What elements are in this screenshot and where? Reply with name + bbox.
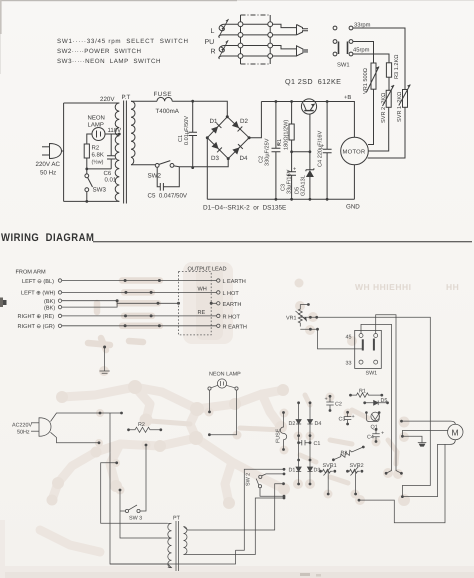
svg-text:SW 3: SW 3 [129, 516, 142, 522]
transformer PT primary winding [115, 103, 119, 201]
svg-text:220V AC: 220V AC [36, 161, 61, 168]
capacitor C3 plates [287, 172, 296, 176]
diode D4 symbol [307, 420, 312, 425]
wire row BK lower joining bracket [62, 301, 117, 307]
left vertical supply wire [63, 103, 65, 201]
capacitor C6 top lead [110, 134, 112, 156]
svg-text:C2: C2 [335, 402, 342, 408]
capacitor C1 (bottom) between columns [299, 442, 310, 444]
ground rail [207, 198, 354, 200]
svg-text:D4: D4 [315, 421, 322, 427]
PU connector block left rail [240, 15, 242, 64]
wire row2 L gnd [241, 34, 271, 36]
SW3 wire bottom [86, 192, 88, 202]
plug prong top [42, 146, 50, 148]
svg-text:R EARTH: R EARTH [223, 324, 247, 330]
svg-text:0.01µF/50V: 0.01µF/50V [183, 116, 190, 145]
svg-text:(BK): (BK) [44, 298, 55, 305]
zener D5 cathode bar [306, 168, 314, 171]
svg-text:OUTPUT LEAD: OUTPUT LEAD [188, 267, 227, 273]
fuse (bottom) [282, 411, 285, 414]
svg-text:M: M [452, 428, 459, 438]
trimmer SVR2 body [386, 90, 391, 107]
diode D5 (bottom) [363, 401, 366, 404]
potentiometer VR1 body [371, 63, 376, 89]
junction dot C2 top [275, 100, 278, 103]
bottom page edge tint [0, 566, 474, 578]
svg-text:C3: C3 [339, 417, 346, 423]
L cartridge arrow [219, 19, 229, 37]
SVR2 arrow [383, 85, 395, 106]
resistor R1 body [289, 124, 294, 140]
svg-text:50 Hz: 50 Hz [40, 170, 56, 177]
wire plug bottom lead [51, 432, 100, 443]
wire SW1 TR up and right, down right side [376, 315, 402, 474]
svg-text:D2: D2 [289, 421, 296, 427]
junction dot D5 bottom [309, 198, 312, 201]
wire motor bottom branches [402, 440, 455, 497]
svg-text:D5: D5 [381, 398, 388, 404]
svg-text:AC220V: AC220V [12, 423, 32, 429]
splice dots row R hot [124, 314, 127, 317]
SW1 (bottom) box [355, 330, 382, 368]
wire row4 R gnd [241, 55, 271, 57]
diode column D2/D1 [297, 401, 300, 404]
SW1 right pole bar [347, 42, 349, 55]
capacitor C2 leads [275, 102, 277, 200]
resistor R3 diagonal (bottom) [332, 458, 335, 461]
C5 right lead up to SW2 output wire [163, 167, 179, 187]
svg-text:LAMP: LAMP [88, 122, 104, 129]
output lead dashed box [179, 272, 212, 335]
diode D3 on bottom-left edge [212, 142, 222, 152]
transformer PT core [176, 521, 179, 571]
svg-text:SVR 2 2KΩ: SVR 2 2KΩ [381, 93, 387, 123]
svg-text:L EARTH: L EARTH [223, 279, 246, 285]
trimmer SVR2 (bottom) [346, 470, 349, 473]
R output gnd wire [273, 55, 297, 57]
diode column D4/D3 [309, 401, 312, 404]
capacitor C1 plates [189, 132, 198, 135]
resistor R1 (bottom) [349, 394, 352, 397]
svg-text:220V: 220V [100, 96, 115, 103]
VR1 terminal wires and dots [300, 305, 317, 330]
wire corner column to D1 row dot [236, 469, 285, 550]
svg-text:SW2·····POWER SWITCH: SW2·····POWER SWITCH [57, 48, 141, 55]
svg-text:R1: R1 [277, 139, 283, 146]
svg-text:GND: GND [346, 204, 360, 211]
junction dot Q1 emitter node [309, 150, 312, 153]
neon lamp circle [92, 128, 105, 141]
page top edge artifact [0, 0, 237, 1]
splice dots earth row [116, 299, 119, 302]
R gnd lead hook [219, 56, 238, 59]
svg-text:33rpm: 33rpm [354, 22, 371, 29]
svg-text:110V: 110V [108, 127, 122, 134]
pcb trace web darker accents [150, 395, 397, 483]
svg-text:L HOT: L HOT [223, 291, 240, 297]
trimmer SVR1 (bottom) [319, 470, 322, 473]
ground symbol (bottom) [418, 442, 427, 444]
svg-text:+: + [293, 167, 296, 173]
svg-text:R1: R1 [359, 389, 366, 395]
svg-text:D1~D4--SR1K-2 or DS135E: D1~D4--SR1K-2 or DS135E [203, 205, 286, 212]
R cartridge arrow [219, 40, 228, 58]
wire SVR2 chain to motor [368, 108, 388, 152]
terminal circles from arm [58, 279, 61, 282]
svg-text:RE: RE [198, 310, 206, 316]
junction dot R1 top [290, 100, 293, 103]
svg-text:T400mA: T400mA [156, 108, 180, 115]
svg-text:C5 0.047/50V: C5 0.047/50V [148, 193, 188, 200]
svg-text:SW2: SW2 [148, 173, 162, 180]
wire neon lamp left [87, 134, 92, 144]
svg-text:VR1 500Ω: VR1 500Ω [363, 68, 369, 94]
resistor R3 body [386, 63, 391, 77]
pcb round pads [47, 279, 411, 510]
PU connector block right rail [269, 15, 271, 64]
switch SW1 open contact circle [333, 26, 337, 30]
SW1 left pole bar [338, 42, 340, 55]
svg-text:SW3: SW3 [93, 187, 107, 194]
svg-text:+: + [325, 397, 328, 403]
capacitor C1 bottom lead [192, 136, 194, 168]
svg-text:33µF/16V: 33µF/16V [285, 169, 292, 194]
plug prong bottom [42, 154, 50, 156]
wire VR1 bottom to motor [368, 89, 374, 144]
wire motor left to ground [402, 431, 447, 437]
wire row R earth (GR) [62, 325, 217, 327]
wire plug top lead [51, 413, 122, 422]
svg-text:SW1: SW1 [366, 371, 378, 377]
svg-text:PT: PT [173, 516, 181, 522]
R channel lead wire with curl [219, 46, 238, 53]
SW2 contacts [259, 475, 262, 478]
diode D2 symbol [296, 420, 301, 425]
svg-text:SVR1: SVR1 [323, 463, 337, 469]
wire SW1 TL up and right, down right side [361, 324, 392, 473]
svg-text:6.8K: 6.8K [92, 152, 104, 159]
splice dots row2 [124, 291, 127, 294]
wire row3 R hot [241, 45, 271, 47]
junction dot C4 bottom [326, 198, 329, 201]
wire 45rpm bottom to R3 [353, 54, 389, 63]
svg-text:NEON LAMP: NEON LAMP [209, 372, 241, 378]
wire row L hot (WH) [62, 291, 217, 293]
wire plug to left rail [62, 150, 64, 152]
svg-text:C4: C4 [367, 435, 374, 441]
transformer PT secondary winding [131, 101, 135, 165]
bridge corner junction dots [206, 115, 251, 160]
splice dots row R earth [124, 324, 127, 327]
svg-text:EARTH: EARTH [223, 302, 242, 308]
AC mains plug symbol [50, 144, 62, 159]
svg-text:FROM ARM: FROM ARM [16, 270, 46, 276]
SW2 left contact [155, 164, 159, 168]
junction dot C1 top [191, 100, 194, 103]
PU block top dash-dot shield line [241, 14, 271, 16]
junction dots on diode columns [297, 434, 300, 437]
svg-text:D1: D1 [210, 118, 218, 125]
junction dot C2 bottom [275, 198, 278, 201]
svg-text:FUSE: FUSE [154, 91, 173, 98]
capacitor C6 bottom lead [110, 159, 112, 169]
diode D4 on bottom-right edge [232, 144, 242, 154]
pcb trace web center light [40, 387, 284, 552]
R RCA plug symbol [297, 46, 304, 56]
transformer PT (bottom) left coil [168, 523, 172, 567]
diode D2 on top-right edge [232, 121, 242, 131]
svg-text:VR1: VR1 [286, 316, 297, 322]
capacitor C4 leads [326, 102, 328, 200]
left edge streak [0, 520, 5, 578]
wire 45rpm top to VR1 [353, 42, 374, 64]
wire neon right terminal down-left [209, 390, 236, 435]
svg-text:C6: C6 [104, 170, 112, 177]
wire SW2 bottom to dot [260, 488, 284, 496]
L channel lead wire with curl [219, 24, 238, 31]
resistor R2 body [84, 144, 89, 158]
svg-text:FUSE: FUSE [276, 428, 282, 443]
svg-text:45: 45 [346, 335, 352, 341]
svg-text:SW 2: SW 2 [246, 473, 252, 486]
svg-text:R2: R2 [138, 422, 145, 428]
junction dot R1 bottom node [290, 150, 293, 153]
SW3 lever [88, 178, 93, 188]
capacitor C4 plates [323, 149, 332, 153]
motor M circle (bottom) [448, 424, 463, 439]
svg-text:LEFT ⊕ (WH): LEFT ⊕ (WH) [21, 290, 56, 297]
svg-text:0.01: 0.01 [105, 177, 117, 184]
C5 left lead from SW2 [157, 167, 160, 187]
zener D5 leads [309, 152, 311, 200]
PU pin circles right rail [268, 22, 273, 27]
wire SW3 bottom to coil tap [120, 490, 168, 538]
svg-text:RIGHT ⊕ (RE): RIGHT ⊕ (RE) [18, 313, 55, 320]
junction dot C4 top [326, 100, 329, 103]
PU pin circles left rail [238, 22, 273, 59]
svg-text:D3: D3 [314, 468, 321, 474]
svg-text:RIGHT ⊖ (GR): RIGHT ⊖ (GR) [18, 323, 55, 330]
Q1 base bar [304, 110, 313, 112]
svg-text:R3 1.2KΩ: R3 1.2KΩ [394, 55, 400, 79]
transformer PT core [124, 101, 127, 204]
wire row L earth (BL) [62, 280, 217, 282]
svg-text:SW3·····NEON LAMP SWITCH: SW3·····NEON LAMP SWITCH [57, 58, 161, 65]
svg-text:D4: D4 [240, 155, 248, 162]
junction dot C1 bottom [191, 166, 194, 169]
wire neon left terminal down [209, 390, 211, 412]
wire bridge right corner to +B rail [249, 102, 261, 138]
pcb trace blobs behind arm rows [88, 281, 160, 351]
junction dot SW3 to bottom wire [85, 200, 88, 203]
L output gnd wire [273, 34, 297, 36]
page-edge mark left [0, 300, 7, 305]
top primary wire to transformer [64, 102, 120, 104]
resistor R1 leads [291, 102, 293, 152]
wire VR1 bottom to SW1 [318, 329, 363, 349]
svg-text:NEON: NEON [88, 115, 105, 122]
transistor Q1 circle [301, 99, 316, 114]
svg-text:P.T: P.T [122, 94, 131, 101]
svg-text:D3: D3 [211, 155, 219, 162]
junction dot C3 bottom [290, 198, 293, 201]
svg-text:R2: R2 [92, 145, 100, 152]
svg-text:+B: +B [344, 95, 351, 101]
SW1 contact circles [333, 40, 337, 44]
svg-text:HH: HH [446, 282, 459, 292]
SW1 33rpm contact circle [349, 26, 353, 30]
svg-text:PU: PU [205, 39, 215, 46]
VR1 wiper arrow [367, 67, 380, 93]
diode D1 on top-left edge [211, 123, 221, 133]
svg-text:WH HHIEHHI: WH HHIEHHI [355, 282, 411, 292]
wire neon lamp right to 110V tap [105, 133, 119, 135]
zener D5 triangle [306, 170, 314, 177]
wire row R hot (RE) [62, 315, 217, 317]
svg-text:50Hz: 50Hz [17, 430, 30, 436]
110V tap junction [118, 133, 121, 136]
wire junction to C6 [87, 168, 111, 170]
PU block bottom dash-dot shield line [241, 63, 271, 65]
chassis ground stub upper [103, 346, 106, 349]
neon lamp electrodes [97, 131, 101, 138]
motor circle [341, 137, 369, 165]
Q1 collector diagonal [303, 104, 306, 111]
heading underline [93, 241, 472, 243]
svg-text:R: R [211, 49, 216, 56]
svg-text:180Ω(1/2W): 180Ω(1/2W) [283, 120, 290, 150]
svg-text:SW1·····33/45 rpm SELECT SWI: SW1·····33/45 rpm SELECT SWITCH [57, 38, 189, 45]
splice dots row1 [124, 279, 127, 282]
wire R3 to SVR2 [388, 77, 390, 90]
wire R2 bottom to junction [86, 158, 88, 169]
diode D3 symbol [307, 467, 312, 472]
svg-text:D1: D1 [289, 468, 296, 474]
pcb pale block behind output lead [183, 262, 233, 344]
svg-text:MOTOR: MOTOR [343, 149, 366, 156]
wire SW3 right to dot [140, 445, 146, 511]
wire row BK upper [62, 300, 117, 302]
SVR1 arrow [399, 85, 411, 106]
bottom primary wire to transformer [64, 200, 120, 202]
svg-text:SVR2: SVR2 [350, 463, 364, 469]
capacitor C4 (bottom) [375, 428, 378, 431]
SW3 left contact [125, 509, 128, 512]
svg-text:LEFT ⊖ (BL): LEFT ⊖ (BL) [22, 278, 54, 285]
svg-text:330µF/25V: 330µF/25V [264, 138, 271, 166]
wire secondary top to fuse [131, 100, 157, 102]
wire motor top [402, 421, 456, 424]
capacitor C3 leads [291, 152, 293, 200]
svg-text:R HOT: R HOT [223, 314, 241, 320]
R output plug wire [273, 46, 297, 49]
SW2 right contact [170, 164, 174, 168]
wire R1 bottom to Q1 emitter node [292, 151, 310, 153]
capacitor C2 plates [272, 148, 281, 152]
diode D1 symbol [296, 467, 301, 472]
+B rail [261, 102, 354, 138]
VR1 (bottom) potentiometer [298, 305, 302, 327]
L RCA plug symbol [297, 25, 309, 35]
wire SW2 top to dot [262, 474, 284, 476]
capacitor C2 (bottom) [329, 395, 332, 398]
capacitor C5 plates [160, 183, 163, 191]
SW3 bottom contact [85, 188, 89, 192]
svg-text:D2: D2 [240, 118, 248, 125]
svg-text:+: + [321, 144, 324, 150]
wire row1 L hot [241, 23, 271, 25]
SW3 top contact [85, 174, 89, 178]
svg-text:(½w): (½w) [92, 160, 104, 166]
wire motor bottom to GND [353, 165, 355, 200]
transistor Q1 (bottom) [365, 411, 368, 414]
neon lamp (bottom) [217, 379, 226, 388]
svg-text:R3: R3 [341, 451, 348, 457]
L gnd lead hook [219, 35, 238, 38]
svg-text:33: 33 [346, 361, 352, 367]
svg-text:+: + [352, 414, 355, 420]
capacitor C1 top lead [192, 101, 194, 132]
wire right coil bottom to SW2 column [184, 498, 285, 555]
pcb ghost text from reverse page [355, 282, 459, 292]
svg-text:SVR 1 2KΩ: SVR 1 2KΩ [397, 92, 403, 122]
wire PT left coil top feed [101, 463, 168, 524]
wire SW3 left branch [120, 510, 125, 512]
svg-text:Q1: Q1 [371, 425, 378, 431]
svg-text:WIRING DIAGRAM: WIRING DIAGRAM [1, 232, 94, 244]
svg-text:C1: C1 [314, 441, 321, 447]
Q1 emitter lead down [309, 114, 311, 152]
SW2 lever [159, 161, 170, 165]
SW3 right contact [137, 509, 140, 512]
switch SW3 wire top [86, 169, 88, 174]
trimmer SVR1 body [403, 90, 408, 108]
capacitor C3 (bottom) [346, 411, 349, 414]
fuse symbol [157, 97, 172, 101]
wire secondary bottom to SW2 [131, 164, 155, 166]
junction dot R2/C6 [85, 168, 88, 171]
svg-text:(BK): (BK) [44, 304, 55, 311]
Q1 emitter diagonal with arrow [310, 104, 314, 111]
wire earth stub at box right [211, 302, 216, 304]
wire earth joined to output [117, 302, 178, 304]
bottom edge small marks [300, 573, 310, 576]
long wire A: mains down and along bottom [110, 413, 236, 564]
svg-text:45rpm: 45rpm [353, 48, 370, 54]
wire SVR1 chain to motor [368, 107, 405, 158]
svg-text:WH: WH [198, 286, 207, 292]
svg-text:L: L [211, 28, 215, 35]
transformer PT right coil [184, 527, 188, 555]
capacitor C6 plates [107, 156, 115, 159]
SW3 lever [129, 505, 138, 510]
svg-text:Q1 2SD 612KE: Q1 2SD 612KE [285, 77, 341, 86]
resistor R2 (bottom) [127, 428, 130, 431]
wire bridge left corner to ground rail [206, 138, 208, 200]
svg-text:SW1: SW1 [337, 62, 350, 69]
page left edge artifact [0, 0, 2, 34]
wire right coil top to fuse node [184, 484, 283, 530]
svg-text:GZA13L: GZA13L [301, 175, 307, 196]
L output plug wire [273, 24, 297, 27]
AC plug symbol [39, 418, 51, 437]
wire fuse to bridge top [172, 101, 227, 117]
bridge rectifier diamond [207, 117, 249, 159]
wire 33rpm to SVR1 top [353, 28, 405, 90]
wire SW2 to bridge bottom [174, 159, 228, 167]
terminal circles output [217, 279, 220, 282]
